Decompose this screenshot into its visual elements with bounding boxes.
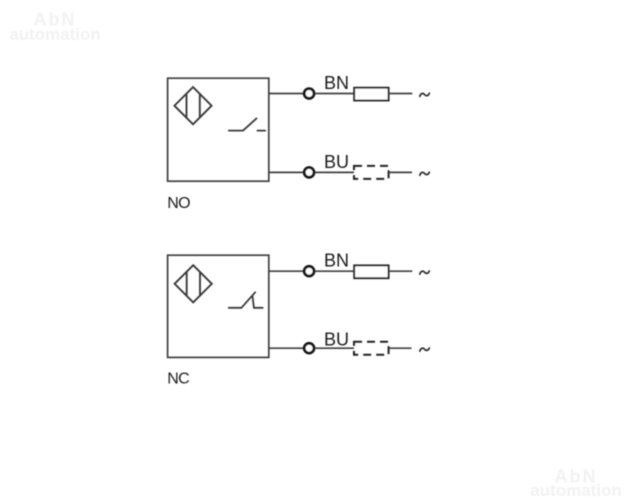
svg-text:BN: BN <box>324 251 349 271</box>
wire BU (NC) terminal to dashed load <box>315 347 354 349</box>
wire BN (NC) box to terminal <box>269 270 303 272</box>
wire BU (NO) box to terminal <box>269 171 303 173</box>
wire BN (NO) terminal to resistor <box>315 93 354 95</box>
wire BU (NC) load to supply <box>389 347 412 349</box>
AC supply symbol BN (NC) <box>420 271 430 274</box>
AC supply symbol BU (NC) <box>420 348 430 351</box>
AC supply symbol BN (NO) <box>420 93 430 96</box>
load resistor BN (NO) <box>354 88 388 101</box>
wire BN (NO) box to terminal <box>269 93 303 95</box>
svg-text:automation: automation <box>9 25 101 44</box>
proximity sensor symbol (diamond) NC <box>175 265 212 302</box>
wire BU (NO) terminal to dashed load <box>315 171 354 173</box>
proximity sensor symbol (diamond) NO <box>174 87 211 124</box>
svg-text:BU: BU <box>324 329 349 349</box>
AC supply symbol BU (NO) <box>420 172 430 175</box>
sensor body NO (box) <box>168 78 269 181</box>
terminal circle BU (NO) <box>304 168 314 178</box>
switch contact NC (normally closed) <box>229 292 263 308</box>
wire BU (NO) load to supply <box>389 171 412 173</box>
wire BN (NC) terminal to resistor <box>315 270 354 272</box>
svg-text:automation: automation <box>530 481 622 500</box>
wire BN (NC) resistor to supply <box>389 270 413 272</box>
svg-text:NC: NC <box>167 371 189 388</box>
watermark top-left "AbN automation" <box>9 10 101 44</box>
optional load (dashed) BU (NO) <box>354 166 389 179</box>
optional load (dashed) BU (NC) <box>354 342 389 355</box>
watermark bottom-right "AbN automation" <box>530 467 622 500</box>
switch contact NO (normally open) <box>229 118 265 130</box>
terminal circle BN (NO) <box>304 89 314 99</box>
terminal circle BU (NC) <box>304 343 314 353</box>
svg-text:BU: BU <box>324 152 349 172</box>
wire BU (NC) box to terminal <box>269 347 303 349</box>
terminal circle BN (NC) <box>304 266 314 276</box>
wire BN (NO) resistor to supply <box>389 93 413 95</box>
svg-text:NO: NO <box>167 195 190 212</box>
sensor body NC (box) <box>168 255 269 357</box>
svg-text:BN: BN <box>324 73 349 93</box>
load resistor BN (NC) <box>354 265 388 278</box>
